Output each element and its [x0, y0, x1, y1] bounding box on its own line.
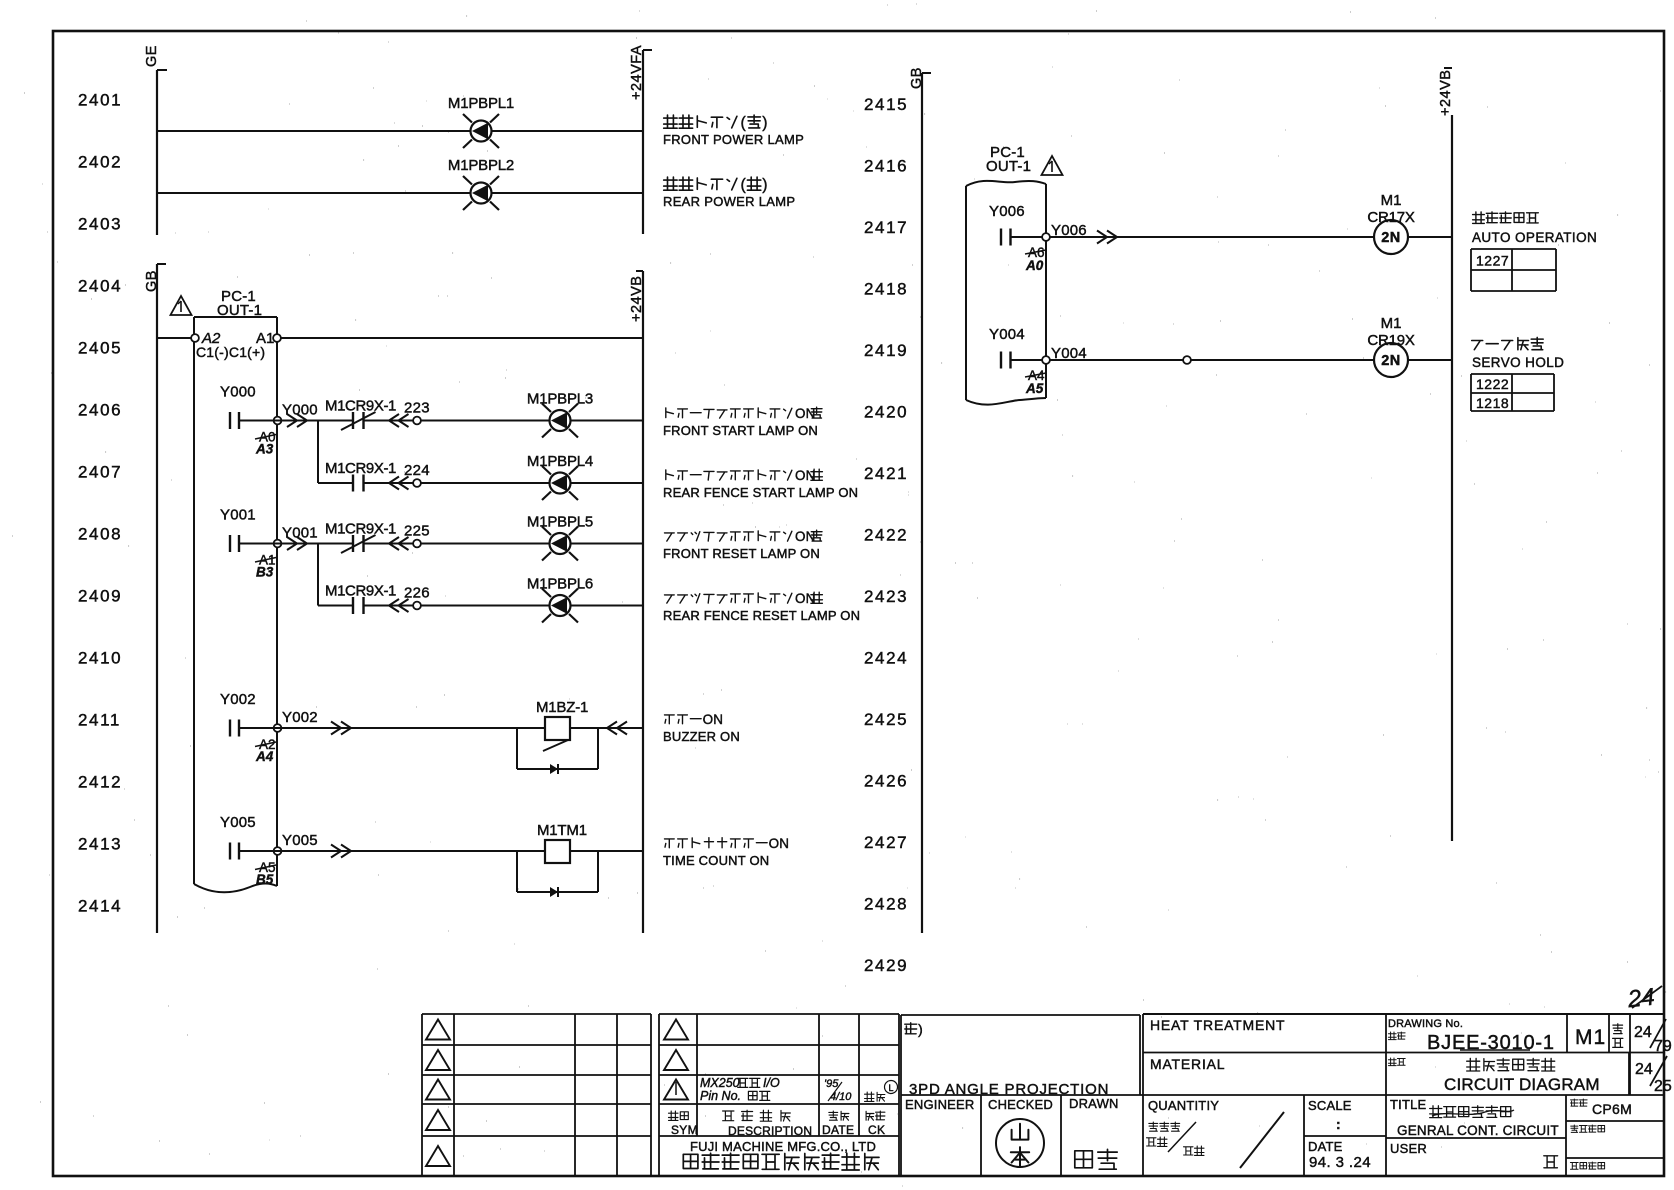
svg-text:2410: 2410: [78, 649, 122, 668]
svg-text:USER: USER: [1390, 1141, 1427, 1156]
svg-text:FRONT START LAMP ON: FRONT START LAMP ON: [663, 423, 818, 438]
svg-text:CHECKED: CHECKED: [988, 1097, 1053, 1112]
svg-text:2405: 2405: [78, 339, 122, 358]
svg-text:2409: 2409: [78, 587, 122, 606]
svg-text:ON: ON: [769, 836, 790, 851]
svg-text:B5: B5: [256, 872, 274, 887]
svg-text:1222: 1222: [1476, 376, 1509, 392]
svg-text:M1PBPL6: M1PBPL6: [527, 576, 593, 593]
svg-text:2422: 2422: [864, 526, 908, 545]
svg-text:GB: GB: [144, 270, 160, 292]
svg-text:2415: 2415: [864, 95, 908, 114]
svg-text:Pin No.: Pin No.: [700, 1089, 741, 1103]
svg-text:OUT-1: OUT-1: [217, 302, 262, 319]
svg-text:Y000: Y000: [220, 384, 256, 401]
svg-text:A4: A4: [255, 749, 274, 764]
svg-text:M1PBPL2: M1PBPL2: [448, 157, 514, 174]
svg-text:79: 79: [1654, 1038, 1672, 1055]
svg-text:Y002: Y002: [282, 709, 318, 726]
svg-text:M1BZ-1: M1BZ-1: [536, 699, 588, 716]
svg-text:24: 24: [1635, 1061, 1653, 1078]
svg-text:MX250: MX250: [700, 1076, 740, 1090]
svg-text:SERVO HOLD: SERVO HOLD: [1472, 355, 1564, 370]
svg-text:24: 24: [1626, 984, 1656, 1014]
svg-text:Y005: Y005: [220, 814, 256, 831]
svg-text:94. 3 .24: 94. 3 .24: [1309, 1154, 1371, 1171]
svg-text:SYM: SYM: [671, 1123, 698, 1137]
svg-text:2404: 2404: [78, 277, 122, 296]
svg-text:2408: 2408: [78, 525, 122, 544]
svg-text:REAR FENCE START LAMP ON: REAR FENCE START LAMP ON: [663, 485, 858, 500]
svg-text:Y004: Y004: [989, 326, 1025, 343]
svg-text:2406: 2406: [78, 401, 122, 420]
svg-text:M1TM1: M1TM1: [537, 822, 587, 839]
svg-text:MATERIAL: MATERIAL: [1150, 1056, 1225, 1072]
svg-text:2423: 2423: [864, 587, 908, 606]
svg-text:M1CR9X-1: M1CR9X-1: [325, 460, 396, 477]
svg-text:2425: 2425: [864, 710, 908, 729]
svg-text:2428: 2428: [864, 895, 908, 914]
svg-text:M1CR9X-1: M1CR9X-1: [325, 521, 396, 538]
svg-text:OUT-1: OUT-1: [986, 158, 1031, 175]
svg-text:TIME COUNT ON: TIME COUNT ON: [663, 853, 769, 868]
svg-text:2414: 2414: [78, 897, 122, 916]
svg-text:): ): [918, 1022, 923, 1038]
svg-text:(: (: [741, 177, 747, 194]
svg-text:REAR FENCE RESET LAMP ON: REAR FENCE RESET LAMP ON: [663, 608, 860, 623]
svg-text:B3: B3: [256, 565, 274, 580]
svg-text:Y002: Y002: [220, 691, 256, 708]
svg-text:2416: 2416: [864, 157, 908, 176]
svg-text:2407: 2407: [78, 463, 122, 482]
svg-text:2412: 2412: [78, 773, 122, 792]
svg-text:226: 226: [404, 585, 430, 602]
svg-text:FRONT POWER LAMP: FRONT POWER LAMP: [663, 132, 804, 147]
svg-text:24: 24: [1634, 1024, 1652, 1041]
svg-text:2401: 2401: [78, 91, 122, 110]
svg-text:223: 223: [404, 400, 430, 417]
svg-text:Y005: Y005: [282, 832, 318, 849]
svg-text:SCALE: SCALE: [1308, 1098, 1352, 1113]
svg-text:1218: 1218: [1476, 395, 1509, 411]
svg-text:DRAWN: DRAWN: [1069, 1096, 1119, 1111]
svg-text:AUTO OPERATION: AUTO OPERATION: [1472, 230, 1597, 245]
svg-text:CK: CK: [868, 1123, 885, 1137]
svg-text:): ): [762, 177, 767, 194]
svg-text:QUANTITIY: QUANTITIY: [1148, 1098, 1219, 1113]
svg-text:Y001: Y001: [220, 507, 256, 524]
svg-text:2403: 2403: [78, 215, 122, 234]
svg-text:M1PBPL3: M1PBPL3: [527, 391, 593, 408]
svg-text:FRONT RESET LAMP ON: FRONT RESET LAMP ON: [663, 546, 820, 561]
svg-text:HEAT TREATMENT: HEAT TREATMENT: [1150, 1017, 1285, 1033]
svg-text:2424: 2424: [864, 649, 908, 668]
svg-text:2426: 2426: [864, 772, 908, 791]
svg-text:M1CR9X-1: M1CR9X-1: [325, 583, 396, 600]
svg-text:2402: 2402: [78, 153, 122, 172]
svg-text:M1: M1: [1381, 192, 1402, 209]
svg-text:2421: 2421: [864, 464, 908, 483]
svg-text:M1PBPL4: M1PBPL4: [527, 453, 593, 470]
svg-text:DATE: DATE: [822, 1123, 854, 1137]
svg-text:M1PBPL5: M1PBPL5: [527, 514, 593, 531]
svg-text:M1: M1: [1381, 315, 1402, 332]
svg-text:M1CR9X-1: M1CR9X-1: [325, 398, 396, 415]
svg-text:C1(-)C1(+): C1(-)C1(+): [196, 344, 265, 360]
svg-text:DATE: DATE: [1308, 1139, 1343, 1154]
svg-text:I/O: I/O: [763, 1076, 780, 1090]
svg-text:2413: 2413: [78, 835, 122, 854]
svg-text:2429: 2429: [864, 956, 908, 975]
svg-text:): ): [762, 115, 767, 132]
svg-text:ON: ON: [703, 712, 724, 727]
svg-text:+24VB: +24VB: [1438, 70, 1454, 116]
svg-text:CR17X: CR17X: [1367, 209, 1415, 226]
svg-text:GE: GE: [144, 45, 160, 67]
svg-text:+24VFA: +24VFA: [629, 45, 645, 100]
svg-text:2427: 2427: [864, 833, 908, 852]
svg-text:TITLE: TITLE: [1390, 1097, 1427, 1112]
svg-text:2419: 2419: [864, 341, 908, 360]
svg-text:2417: 2417: [864, 218, 908, 237]
svg-text:M1: M1: [1575, 1026, 1606, 1049]
svg-text:A5: A5: [1025, 381, 1044, 396]
svg-text:DESCRIPTION: DESCRIPTION: [728, 1124, 812, 1138]
svg-text:REAR POWER LAMP: REAR POWER LAMP: [663, 194, 795, 209]
svg-text:CIRCUIT DIAGRAM: CIRCUIT DIAGRAM: [1444, 1075, 1600, 1094]
svg-text:2420: 2420: [864, 403, 908, 422]
svg-text:DRAWING No.: DRAWING No.: [1388, 1018, 1463, 1030]
svg-text:ENGINEER: ENGINEER: [905, 1097, 975, 1112]
svg-text:2N: 2N: [1381, 353, 1401, 369]
svg-text:(: (: [741, 115, 747, 132]
svg-text:L: L: [888, 1083, 893, 1093]
svg-text:2N: 2N: [1381, 230, 1401, 246]
svg-text:FUJI MACHINE MFG.CO., LTD: FUJI MACHINE MFG.CO., LTD: [690, 1139, 876, 1154]
svg-text:2411: 2411: [78, 711, 121, 730]
svg-text:225: 225: [404, 523, 430, 540]
svg-text:25: 25: [1654, 1078, 1672, 1095]
svg-text:BUZZER ON: BUZZER ON: [663, 729, 740, 744]
svg-text:GENRAL CONT. CIRCUIT: GENRAL CONT. CIRCUIT: [1397, 1123, 1559, 1138]
svg-text:CP6M: CP6M: [1592, 1101, 1632, 1117]
svg-text:2418: 2418: [864, 280, 908, 299]
svg-text:A0: A0: [1025, 258, 1044, 273]
svg-text:CR19X: CR19X: [1367, 332, 1415, 349]
svg-text:A3: A3: [255, 442, 274, 457]
svg-text:1227: 1227: [1476, 253, 1509, 269]
svg-text::: :: [1336, 1116, 1341, 1132]
svg-text:M1PBPL1: M1PBPL1: [448, 95, 514, 112]
svg-text:Y006: Y006: [989, 203, 1025, 220]
svg-text:GB: GB: [909, 67, 925, 89]
svg-text:224: 224: [404, 462, 430, 479]
svg-text:+24VB: +24VB: [629, 276, 645, 322]
